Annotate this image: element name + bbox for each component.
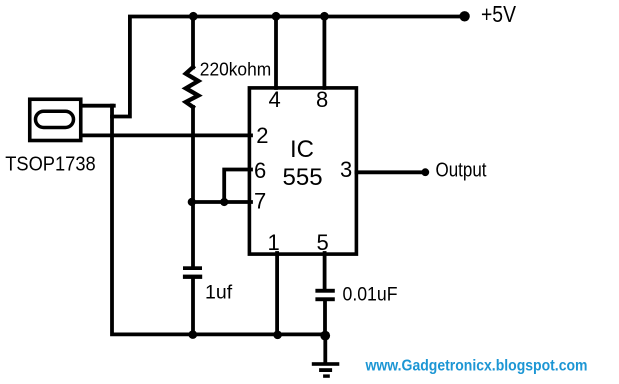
svg-text:6: 6	[254, 158, 266, 183]
svg-text:220kohm: 220kohm	[200, 59, 271, 80]
svg-text:IC: IC	[290, 136, 314, 163]
svg-text:1: 1	[268, 230, 280, 255]
svg-text:Output: Output	[436, 160, 487, 182]
svg-text:3: 3	[340, 157, 352, 182]
svg-text:7: 7	[254, 188, 266, 213]
svg-text:1uf: 1uf	[205, 282, 233, 304]
svg-text:4: 4	[269, 87, 281, 112]
svg-text:www.Gadgetronicx.blogspot.com: www.Gadgetronicx.blogspot.com	[365, 357, 588, 374]
svg-text:2: 2	[256, 123, 268, 148]
svg-text:555: 555	[283, 164, 323, 191]
svg-text:8: 8	[316, 87, 328, 112]
svg-text:TSOP1738: TSOP1738	[5, 153, 96, 176]
svg-text:+5V: +5V	[481, 1, 516, 27]
svg-text:0.01uF: 0.01uF	[343, 284, 398, 306]
svg-text:5: 5	[317, 230, 329, 255]
